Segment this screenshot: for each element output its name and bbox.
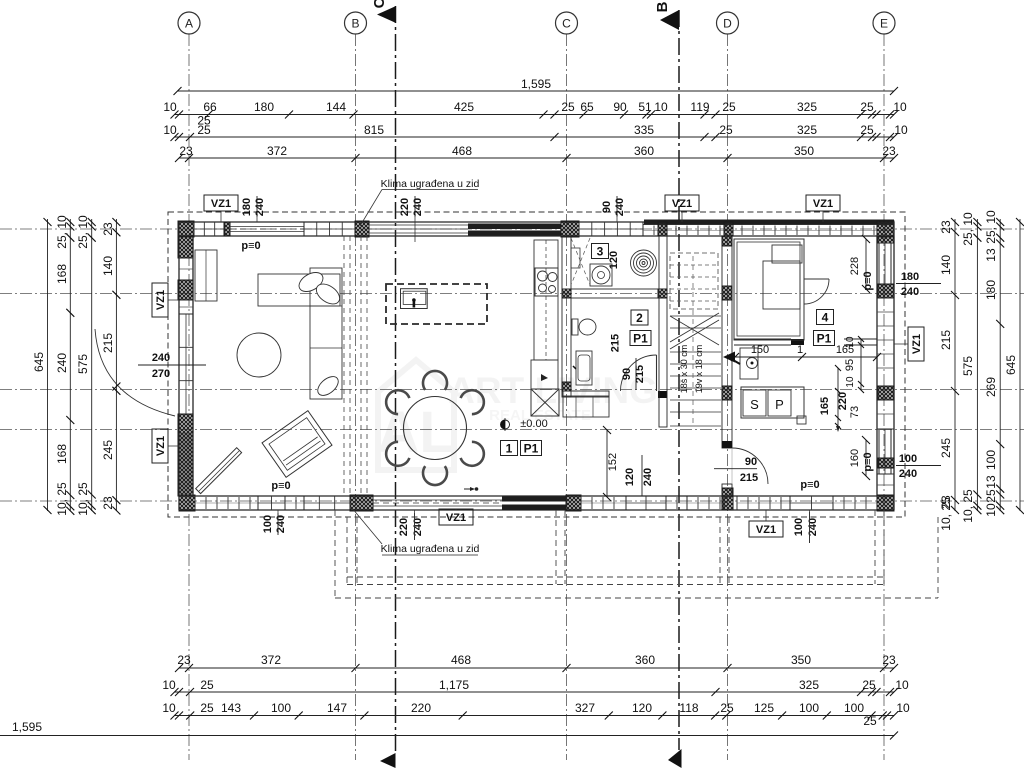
svg-text:350: 350	[794, 144, 814, 158]
svg-text:120: 120	[632, 701, 652, 715]
svg-text:220: 220	[398, 518, 410, 536]
svg-text:240: 240	[55, 353, 69, 373]
svg-text:23: 23	[179, 144, 193, 158]
svg-text:240: 240	[807, 518, 819, 536]
svg-text:P1: P1	[633, 332, 648, 346]
svg-text:VZ1: VZ1	[155, 290, 167, 310]
svg-text:327: 327	[575, 701, 595, 715]
svg-text:VZ1: VZ1	[756, 524, 776, 536]
svg-text:143: 143	[221, 701, 241, 715]
svg-text:p≡0: p≡0	[862, 271, 874, 290]
svg-text:25: 25	[719, 123, 733, 137]
svg-text:10: 10	[895, 678, 909, 692]
svg-text:10, 25: 10, 25	[939, 497, 953, 531]
svg-text:C: C	[562, 17, 571, 31]
svg-text:VZ1: VZ1	[911, 334, 923, 354]
svg-text:120: 120	[624, 468, 636, 486]
svg-text:575: 575	[961, 356, 975, 376]
svg-text:25, 10: 25, 10	[984, 210, 998, 244]
svg-text:25: 25	[722, 100, 736, 114]
svg-text:S: S	[750, 397, 759, 412]
svg-text:66: 66	[203, 100, 217, 114]
svg-text:25: 25	[860, 123, 874, 137]
svg-text:P1: P1	[817, 332, 832, 346]
svg-text:±0.00: ±0.00	[520, 418, 547, 430]
svg-text:A: A	[185, 17, 193, 31]
svg-text:23: 23	[101, 496, 115, 510]
svg-text:168: 168	[55, 264, 69, 284]
svg-text:23: 23	[177, 653, 191, 667]
svg-text:19v x 18 cm: 19v x 18 cm	[694, 345, 704, 394]
svg-text:160: 160	[849, 449, 861, 467]
svg-text:65: 65	[580, 100, 594, 114]
svg-text:10: 10	[654, 100, 668, 114]
svg-text:228: 228	[849, 257, 861, 275]
svg-text:240: 240	[642, 468, 654, 486]
svg-text:425: 425	[454, 100, 474, 114]
svg-text:10, 25: 10, 25	[961, 489, 975, 523]
svg-text:645: 645	[1004, 355, 1018, 375]
svg-text:125: 125	[754, 701, 774, 715]
svg-text:4: 4	[822, 311, 829, 325]
svg-text:165: 165	[819, 397, 831, 415]
svg-text:100: 100	[262, 515, 274, 533]
svg-text:25: 25	[561, 100, 575, 114]
svg-text:25: 25	[862, 678, 876, 692]
svg-text:10, 25: 10, 25	[76, 482, 90, 516]
svg-text:180: 180	[254, 100, 274, 114]
svg-text:1: 1	[797, 344, 803, 356]
svg-text:240: 240	[412, 198, 424, 216]
svg-text:10: 10	[163, 123, 177, 137]
svg-text:25, 10: 25, 10	[55, 215, 69, 249]
svg-text:10: 10	[984, 503, 998, 517]
svg-text:100: 100	[799, 701, 819, 715]
svg-text:100: 100	[793, 518, 805, 536]
svg-text:25: 25	[720, 701, 734, 715]
svg-text:220: 220	[399, 198, 411, 216]
svg-text:90: 90	[621, 368, 633, 380]
svg-text:C: C	[371, 0, 388, 8]
svg-text:1,175: 1,175	[439, 678, 469, 692]
svg-text:25: 25	[860, 100, 874, 114]
svg-text:23: 23	[101, 222, 115, 236]
svg-text:245: 245	[101, 440, 115, 460]
svg-text:VZ1: VZ1	[672, 198, 692, 210]
svg-text:10: 10	[845, 336, 856, 348]
svg-text:150: 150	[751, 344, 769, 356]
svg-text:90: 90	[601, 201, 613, 213]
svg-text:10: 10	[896, 701, 910, 715]
svg-text:Klima ugrađena u zid: Klima ugrađena u zid	[381, 178, 480, 190]
svg-text:1,595: 1,595	[12, 720, 42, 734]
svg-text:220: 220	[837, 392, 849, 410]
svg-text:90: 90	[613, 100, 627, 114]
svg-text:360: 360	[634, 144, 654, 158]
svg-text:245: 245	[939, 438, 953, 458]
svg-text:147: 147	[327, 701, 347, 715]
svg-text:10: 10	[162, 701, 176, 715]
svg-text:13: 13	[984, 248, 998, 262]
svg-text:240: 240	[899, 468, 917, 480]
svg-text:10: 10	[894, 123, 908, 137]
svg-text:215: 215	[610, 334, 622, 352]
svg-text:10: 10	[162, 678, 176, 692]
svg-text:100: 100	[984, 450, 998, 470]
svg-text:372: 372	[261, 653, 281, 667]
svg-text:25: 25	[200, 701, 214, 715]
svg-text:140: 140	[939, 255, 953, 275]
svg-text:VZ1: VZ1	[446, 512, 466, 524]
svg-text:180: 180	[901, 271, 919, 283]
svg-text:23: 23	[882, 653, 896, 667]
svg-text:18š x 30 cm: 18š x 30 cm	[679, 345, 689, 394]
svg-text:Klima ugrađena u zid: Klima ugrađena u zid	[381, 543, 480, 555]
svg-text:815: 815	[364, 123, 384, 137]
svg-text:119: 119	[690, 100, 709, 114]
svg-text:23: 23	[939, 220, 953, 234]
svg-text:215: 215	[101, 333, 115, 353]
svg-text:25, 10: 25, 10	[76, 215, 90, 249]
svg-text:10: 10	[163, 100, 177, 114]
svg-text:269: 269	[984, 377, 998, 397]
svg-text:335: 335	[634, 123, 654, 137]
svg-text:100: 100	[271, 701, 291, 715]
svg-text:575: 575	[76, 354, 90, 374]
svg-text:VZ1: VZ1	[155, 436, 167, 456]
svg-text:2: 2	[636, 311, 643, 325]
svg-text:140: 140	[101, 256, 115, 276]
svg-text:118: 118	[679, 701, 698, 715]
svg-text:VZ1: VZ1	[813, 198, 833, 210]
svg-text:p≡0: p≡0	[271, 480, 290, 492]
svg-text:10: 10	[845, 376, 856, 388]
svg-text:180: 180	[984, 280, 998, 300]
svg-text:350: 350	[791, 653, 811, 667]
svg-text:25: 25	[863, 714, 877, 728]
svg-text:73: 73	[849, 406, 861, 418]
svg-text:240: 240	[901, 286, 919, 298]
svg-text:152: 152	[607, 453, 619, 471]
svg-text:120: 120	[608, 251, 620, 269]
svg-text:360: 360	[635, 653, 655, 667]
svg-text:144: 144	[326, 100, 346, 114]
svg-text:240: 240	[152, 352, 170, 364]
svg-text:468: 468	[451, 653, 471, 667]
svg-text:51: 51	[638, 100, 652, 114]
svg-text:1,595: 1,595	[521, 77, 551, 91]
svg-text:240: 240	[412, 518, 424, 536]
svg-text:B: B	[351, 17, 359, 31]
svg-text:13: 13	[984, 475, 998, 489]
svg-text:325: 325	[797, 100, 817, 114]
svg-text:P: P	[775, 397, 784, 412]
svg-text:1: 1	[506, 442, 513, 456]
svg-text:E: E	[880, 17, 888, 31]
svg-text:215: 215	[939, 330, 953, 350]
svg-text:325: 325	[799, 678, 819, 692]
svg-text:p≡0: p≡0	[862, 452, 874, 471]
svg-text:325: 325	[797, 123, 817, 137]
svg-text:645: 645	[32, 352, 46, 372]
svg-text:90: 90	[745, 456, 757, 468]
svg-text:95: 95	[844, 359, 856, 371]
svg-text:10: 10	[893, 100, 907, 114]
svg-text:180: 180	[241, 198, 253, 216]
svg-text:25: 25	[200, 678, 214, 692]
svg-text:468: 468	[452, 144, 472, 158]
svg-text:240: 240	[275, 515, 287, 533]
svg-text:P1: P1	[524, 442, 539, 456]
svg-text:25: 25	[197, 123, 211, 137]
svg-text:25: 25	[984, 489, 998, 503]
svg-text:215: 215	[740, 472, 758, 484]
svg-text:100: 100	[844, 701, 864, 715]
svg-text:10, 25: 10, 25	[55, 482, 69, 516]
svg-text:100: 100	[899, 453, 917, 465]
svg-text:23: 23	[882, 144, 896, 158]
svg-text:270: 270	[152, 368, 170, 380]
svg-text:B: B	[654, 1, 671, 12]
svg-text:168: 168	[55, 444, 69, 464]
svg-text:25, 10: 25, 10	[961, 212, 975, 246]
svg-text:p≡0: p≡0	[800, 479, 819, 491]
svg-text:372: 372	[267, 144, 287, 158]
svg-text:D: D	[723, 17, 732, 31]
svg-text:220: 220	[411, 701, 431, 715]
svg-text:VZ1: VZ1	[211, 198, 231, 210]
svg-text:240: 240	[614, 198, 626, 216]
svg-text:240: 240	[254, 198, 266, 216]
svg-text:3: 3	[597, 245, 604, 259]
svg-text:p≡0: p≡0	[241, 240, 260, 252]
